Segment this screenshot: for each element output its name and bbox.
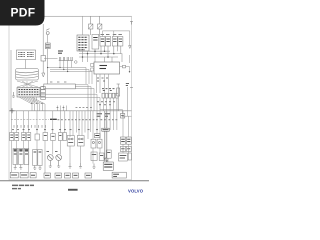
- node marker right frame mid: [130, 87, 133, 89]
- label: pin numbers row: [102, 89, 115, 91]
- label: connector designators below rule: [97, 114, 111, 116]
- connector ticks row: [59, 57, 73, 61]
- wire: harness branches right: [36, 85, 100, 111]
- wire: vertical drops below rule (left): [12, 111, 65, 134]
- wire: mini square drops: [103, 98, 117, 111]
- label: component id row above boxes: [12, 129, 98, 131]
- ECM module U1: [91, 62, 120, 74]
- main horizontal rule: [9, 110, 131, 112]
- connector row labels: [11, 174, 119, 176]
- relay pair K2: [100, 35, 111, 47]
- sensor B5 with dots: [77, 136, 84, 147]
- wire: U1 to right rail: [120, 55, 130, 72]
- fuse F3: [98, 16, 102, 36]
- wire: relay top link: [103, 31, 130, 46]
- connector row mini squares: [102, 93, 118, 98]
- label: bus bar ids: [50, 81, 66, 83]
- fuse F1 on drop A: [41, 56, 46, 62]
- wire: ECU to relay body: [25, 60, 27, 69]
- wire: far right vertical: [127, 87, 129, 116]
- label: NCA: [50, 118, 57, 120]
- footer rule: [0, 180, 149, 182]
- wire: stubs above rule (center): [58, 106, 67, 111]
- label: connector pin ids below squares: [97, 102, 115, 105]
- arrow terminal: [42, 73, 45, 77]
- control unit D1 (hatched): [77, 16, 89, 51]
- relay pair K3: [112, 35, 123, 47]
- label: wire-number row (right half): [58, 119, 118, 121]
- switch S2 pair: [22, 133, 31, 141]
- wire: vertical drop B: [47, 35, 49, 43]
- junction box J2 row: [120, 146, 131, 151]
- resistor R2: [117, 88, 120, 96]
- PDF badge: [0, 0, 45, 26]
- label: right wire id: [126, 84, 129, 86]
- sensor B4 with dots: [67, 136, 74, 147]
- wire: crossover harness fan: [17, 81, 38, 88]
- wire: vertical drop A: [42, 24, 44, 56]
- wire: right stub to connector: [100, 109, 132, 118]
- svg-text:VOLVO: VOLVO: [128, 189, 144, 194]
- wire bundle from C1: [19, 97, 45, 111]
- relay K1: [92, 35, 99, 50]
- bus bar main harness: [42, 84, 76, 89]
- connector strip C1: [17, 88, 40, 98]
- antenna symbol with circle: [46, 29, 49, 35]
- label: bundle ticks: [31, 102, 43, 104]
- tick right of connector: [128, 172, 130, 178]
- wire: stubs into bottom connector row: [12, 140, 129, 173]
- solenoid pair Y2: [33, 150, 42, 166]
- label: stub ids: [57, 106, 92, 108]
- footer: center label: [68, 189, 78, 191]
- inline connector on pair: [102, 128, 109, 131]
- wire: center link: [44, 58, 58, 60]
- switch S1 pair: [10, 133, 19, 141]
- wire: vertical drops below rule (right): [70, 111, 129, 139]
- actuator box right: [119, 153, 132, 161]
- dashed option line: [11, 119, 49, 121]
- fuse F2: [89, 16, 93, 35]
- lamp L2: [55, 152, 62, 161]
- injector bank right: [91, 150, 111, 161]
- node: splice cross: [10, 108, 15, 113]
- wire: U1 drops: [97, 74, 109, 93]
- inline connector (striped): [45, 43, 50, 49]
- ground symbols row: [14, 161, 96, 170]
- ground: left stub: [12, 92, 15, 98]
- dark module bottom-center: [103, 162, 113, 170]
- sensor B2: [43, 133, 48, 141]
- connector block ECU top-left: [17, 50, 36, 60]
- bottom connector row: [10, 172, 126, 178]
- node marker right frame top: [130, 22, 133, 25]
- sensor B3: [51, 134, 56, 141]
- arrow terminal right: [129, 46, 131, 49]
- switch S3 pair: [58, 133, 66, 141]
- bus: center rails: [48, 61, 92, 85]
- junction dots: [82, 50, 115, 57]
- wire: left vertical feed: [10, 50, 12, 111]
- wire: twisted pair: [105, 111, 107, 162]
- junction box J1 (right, dark pair): [120, 137, 131, 144]
- pin tick row lower-left: [14, 125, 46, 128]
- wire: top rail: [40, 15, 132, 17]
- resistor R1 on right wire: [117, 84, 120, 111]
- bus: mid-right rails: [79, 46, 122, 62]
- pin pads: [91, 64, 94, 67]
- connector pin column: [41, 87, 46, 100]
- terminal arrows on pair: [104, 158, 108, 162]
- lamp L1: [47, 152, 54, 161]
- label: U1 pin ids: [97, 78, 108, 81]
- label: splice id: [58, 51, 63, 53]
- junction dots center: [47, 67, 68, 72]
- relay body (rounded): [16, 69, 39, 81]
- drawing frame: [9, 16, 132, 180]
- svg-text:PDF: PDF: [11, 6, 36, 20]
- module A1 (dark): [95, 134, 101, 138]
- gauge pair M1: [91, 139, 102, 148]
- footer: document title lines: [12, 185, 34, 190]
- sensor B1: [35, 134, 40, 140]
- node: splice S10: [75, 61, 78, 64]
- solenoid bank Y1: [13, 149, 29, 165]
